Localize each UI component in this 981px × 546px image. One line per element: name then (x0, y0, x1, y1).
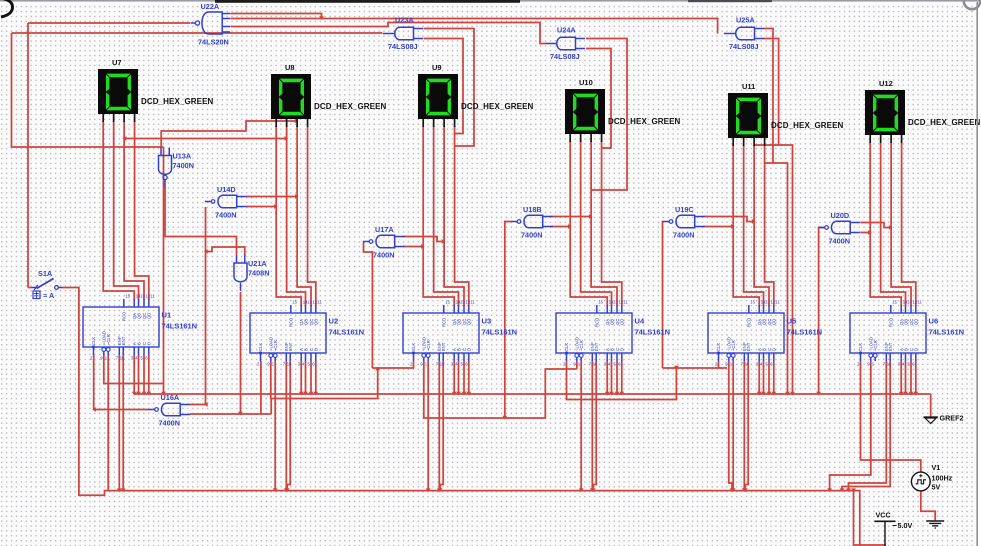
svg-text:VCC: VCC (876, 511, 891, 520)
svg-text:CLK: CLK (411, 343, 416, 351)
svg-text:ENT: ENT (594, 342, 599, 351)
svg-text:QD: QD (314, 319, 319, 325)
wire: S1A right contact down and jog into lower bus (79, 288, 108, 495)
svg-text:DCD_HEX_GREEN: DCD_HEX_GREEN (314, 102, 387, 111)
tick mark before 5.0V (893, 525, 897, 527)
wire: U25A input1 from U11 pin4 (riser x773) (764, 29, 774, 164)
svg-text:RCO: RCO (595, 317, 600, 327)
svg-text:QB: QB (761, 319, 766, 325)
wire: U22A output to switch S1A (28, 23, 190, 288)
svg-text:U25A: U25A (736, 16, 755, 25)
svg-text:QB: QB (136, 313, 141, 319)
wire: S1A left wire from switch (28, 287, 79, 290)
wire: U2 ~CLR ENP ENT drops to lower bus (275, 361, 286, 491)
svg-text:D: D (314, 348, 319, 351)
svg-text:11: 11 (317, 300, 322, 305)
svg-text:74LS08J: 74LS08J (729, 42, 759, 51)
svg-text:10: 10 (745, 362, 750, 367)
svg-text:~CLR: ~CLR (873, 340, 878, 351)
svg-text:U14D: U14D (217, 185, 236, 194)
svg-text:U8: U8 (285, 63, 295, 72)
svg-text:U16A: U16A (161, 393, 180, 402)
wire: lower bus y490.6 across schematic (108, 491, 860, 546)
svg-text:RCO: RCO (289, 317, 294, 327)
svg-text:B: B (609, 348, 614, 351)
7-segment display U8 (DCD_HEX_GREEN) (271, 74, 311, 119)
svg-text:74LS161N: 74LS161N (482, 328, 518, 337)
gate U21A (7408N) pointing down (234, 255, 247, 291)
wires: U9 pins down to U3 outputs (staircase) (423, 126, 469, 306)
counter U4 74LS161N (556, 305, 632, 361)
wire: U24A input2 from U10 pin4 (riser x611) (586, 49, 611, 149)
wire: U1 A B C D input drops to ground bus (134, 355, 149, 394)
ground symbol below V1 (926, 521, 944, 528)
wire: net U23A output to U22A input4 and left-side drop (12, 33, 383, 147)
counter U1 74LS161N (83, 299, 159, 355)
wire: U3 A B C D input drops to ground bus (454, 361, 469, 394)
wire: U4 CLK long link to riser x676.4 (567, 361, 677, 400)
svg-text:74LS08J: 74LS08J (550, 52, 580, 61)
U5 inner pin labels (715, 300, 780, 367)
svg-text:CLK: CLK (91, 337, 96, 345)
wire: U19C output down (662, 222, 665, 369)
wire: spur risers right of U11 down to bus (773, 163, 788, 394)
svg-text:U6: U6 (929, 317, 939, 326)
svg-text:74LS161N: 74LS161N (162, 322, 198, 331)
svg-text:U13A: U13A (173, 152, 192, 161)
svg-text:7400N: 7400N (521, 231, 543, 240)
wire: U17A inputs taps on U9 pins (403, 237, 444, 242)
svg-text:B: B (903, 348, 908, 351)
wire: U21A output down to CLK link line (240, 292, 242, 414)
svg-text:15: 15 (125, 294, 130, 299)
ground GREF2 (924, 417, 939, 424)
svg-text:U19C: U19C (675, 205, 694, 214)
svg-text:10: 10 (440, 362, 445, 367)
svg-text:QB: QB (903, 319, 908, 325)
svg-text:74LS161N: 74LS161N (635, 328, 671, 337)
svg-text:D: D (772, 348, 777, 351)
svg-text:U18B: U18B (523, 205, 542, 214)
NAND gate U19C (7400N) (663, 215, 705, 228)
wire: U16A output to U1 CLK (94, 355, 149, 410)
wire: U25A input2 from U11 pin3 (riser x778.6) (754, 39, 779, 146)
svg-text:D: D (467, 348, 472, 351)
gate U13A (7400N) pointing down (159, 148, 172, 188)
U2 inner pin labels (257, 300, 322, 367)
wires: U12 pins down to U6 outputs (staircase) (870, 142, 916, 306)
svg-text:DCD_HEX_GREEN: DCD_HEX_GREEN (141, 97, 214, 106)
left edge logo fragment (1, 0, 13, 17)
svg-text:U1: U1 (162, 311, 172, 320)
wire: V1 bottom to ground (921, 491, 935, 521)
U4 inner pin labels (563, 300, 628, 367)
svg-text:~CLR: ~CLR (579, 340, 584, 351)
counter U6 74LS161N (850, 305, 926, 361)
wire: U5 ~LOAD down to bus with jog (729, 361, 732, 491)
U7 pins (black stubs) (103, 114, 134, 122)
svg-text:U12: U12 (879, 79, 893, 88)
svg-text:DCD_HEX_GREEN: DCD_HEX_GREEN (461, 102, 534, 111)
wire: U6 CLK to V1 clock source (861, 361, 921, 472)
wire: ground bus y394 across schematic to GREF2 (134, 393, 930, 395)
svg-text:QD: QD (620, 319, 625, 325)
counter U5 74LS161N (708, 305, 784, 361)
wire: vertical x853.5 from bus to bottom edge (854, 491, 887, 545)
svg-text:~CLR: ~CLR (106, 334, 111, 345)
wire: U4 ~CLR ENP ENT drops to lower bus (581, 361, 592, 491)
svg-text:~CLR: ~CLR (273, 340, 278, 351)
svg-text:U22A: U22A (201, 2, 220, 11)
svg-text:7400N: 7400N (373, 251, 395, 260)
counter U2 74LS161N (250, 305, 326, 361)
svg-text:B: B (136, 342, 141, 345)
NAND gate U18B (7400N) (511, 215, 553, 228)
svg-text:100Hz: 100Hz (932, 474, 953, 483)
svg-text:D: D (147, 342, 152, 345)
wires: U11 pins down to U5 outputs (staircase) (733, 145, 774, 306)
counter U3 74LS161N (403, 305, 479, 361)
svg-text:7400N: 7400N (215, 211, 237, 220)
wire: U13A output down to U21A input1 (165, 187, 237, 255)
svg-text:U4: U4 (635, 317, 645, 326)
switch S1A (32, 279, 63, 291)
U9 pins (black stubs) (423, 119, 454, 127)
svg-text:74LS08J: 74LS08J (388, 42, 418, 51)
svg-text:~CLR: ~CLR (731, 340, 736, 351)
wire: U23A input1 from U9 pin4 (riser x474) (424, 29, 475, 147)
wire: U16A input2 / U21A out / U2 CLK link (y414) (190, 361, 271, 414)
svg-text:11: 11 (917, 300, 922, 305)
wire: U24A input1 from U10 pin3 (riser x627) (586, 39, 627, 191)
svg-text:U21A: U21A (248, 259, 267, 268)
svg-text:U10: U10 (579, 78, 593, 87)
svg-text:V1: V1 (932, 463, 941, 472)
svg-text:U20D: U20D (831, 211, 850, 220)
wire: U3 ~CLR ENP ENT drops to lower bus (428, 361, 439, 491)
svg-text:11: 11 (775, 300, 780, 305)
svg-text:U9: U9 (432, 63, 442, 72)
wire: U6 ENP step to bus (849, 361, 887, 491)
svg-text:15: 15 (445, 300, 450, 305)
svg-text:10: 10 (887, 362, 892, 367)
svg-text:RCO: RCO (889, 317, 894, 327)
svg-text:QD: QD (772, 319, 777, 325)
7-segment display U9 (DCD_HEX_GREEN) (418, 74, 458, 119)
svg-text:B: B (456, 348, 461, 351)
wire: net U7.pin3 to U8.pin2 (y138.5) (124, 138, 287, 140)
wire: U19C inputs taps on U11 pins (703, 217, 754, 222)
wire: U1 ~LOAD to bus riser (104, 355, 164, 384)
NAND gate U14D (7400N) (205, 195, 247, 208)
U11 pins (black stubs) (733, 138, 764, 146)
wire: U19C out / U5 CLK link at y368 (663, 361, 728, 368)
wire: U6 A B C D input drops to ground bus (901, 361, 916, 394)
svg-text:D: D (620, 348, 625, 351)
svg-text:5V: 5V (932, 483, 941, 492)
svg-text:74LS161N: 74LS161N (329, 328, 365, 337)
svg-text:CLK: CLK (564, 343, 569, 351)
wire: U6 ~LOAD to bus via y475 (830, 361, 871, 491)
wire: U2 ~LOAD / U17A out / U3 CLK link (271, 361, 414, 399)
AND gate U24A (74LS08J) (545, 37, 585, 50)
svg-text:RCO: RCO (747, 317, 752, 327)
svg-text:D: D (914, 348, 919, 351)
svg-text:U11: U11 (742, 82, 755, 91)
wire: U6 ENT step to bus (842, 361, 890, 491)
svg-text:U17A: U17A (375, 225, 394, 234)
wire: left riser x163.5 down to bus (LOAD net) (163, 147, 165, 394)
wires: U7 pins down to U1 outputs (staircase) (103, 121, 149, 300)
AND gate U23A (74LS08J) (383, 27, 423, 40)
svg-text:B: B (303, 348, 308, 351)
svg-text:15: 15 (292, 300, 297, 305)
svg-text:QB: QB (609, 319, 614, 325)
svg-text:U3: U3 (482, 317, 492, 326)
svg-text:CLK: CLK (258, 343, 263, 351)
clock source V1 (911, 472, 930, 491)
svg-text:74LS161N: 74LS161N (929, 328, 965, 337)
wire: U2 A B C D input drops to ground bus (301, 361, 316, 394)
svg-text:ENT: ENT (288, 342, 293, 351)
svg-text:7400N: 7400N (673, 231, 695, 240)
svg-text:CLK: CLK (858, 343, 863, 351)
AND gate U25A (74LS08J) (724, 27, 764, 40)
svg-text:QD: QD (147, 313, 152, 319)
svg-text:15: 15 (598, 300, 603, 305)
svg-text:11: 11 (470, 300, 475, 305)
wire: GREF2 drop (930, 394, 932, 417)
wires: U10 pins down to U4 outputs (staircase) (570, 141, 622, 306)
wire: U14D input1 tap on U8 pin3 (247, 196, 298, 198)
wire: U20D output down to bus (819, 228, 825, 395)
wire: net U24A output to U22A input3 (231, 23, 546, 44)
7-segment display U7 (DCD_HEX_GREEN) (98, 69, 138, 114)
svg-text:QD: QD (914, 319, 919, 325)
wire: U23A input2 from U9 pin4 (riser x463) (424, 39, 464, 134)
svg-text:11: 11 (623, 300, 628, 305)
NAND gate U17A (7400N) (363, 235, 405, 248)
wire: U18B output down (505, 222, 511, 419)
svg-text:7400N: 7400N (829, 237, 851, 246)
wire: U21A input2 from U14D output vertical (206, 247, 245, 255)
wire: U14D output down to U16A input1 (205, 207, 207, 405)
svg-text:74LS20N: 74LS20N (198, 38, 229, 47)
wire: U17A output down (364, 242, 373, 369)
wires: U8 pins down to U2 outputs (staircase) (276, 126, 316, 306)
svg-text:S1A: S1A (38, 269, 53, 278)
svg-text:QB: QB (456, 319, 461, 325)
svg-text:U5: U5 (787, 317, 797, 326)
svg-text:U2: U2 (329, 317, 339, 326)
svg-text:5.0V: 5.0V (898, 521, 913, 530)
svg-text:QD: QD (467, 319, 472, 325)
wire: U18B inputs taps on U10 pins (551, 216, 592, 218)
power VCC symbol (875, 521, 896, 546)
svg-text:10: 10 (120, 356, 125, 361)
svg-text:DCD_HEX_GREEN: DCD_HEX_GREEN (608, 117, 681, 126)
svg-text:U24A: U24A (557, 26, 576, 35)
U3 inner pin labels (410, 300, 475, 367)
wire: U5 ~CLR ENP ENT drops to lower bus (733, 361, 744, 491)
svg-text:7408N: 7408N (248, 269, 270, 278)
U6 inner pin labels (857, 300, 922, 367)
svg-text:U7: U7 (112, 58, 122, 67)
label key = A for S1A (33, 291, 55, 300)
U1 inner pin labels (90, 294, 155, 361)
svg-text:15: 15 (892, 300, 897, 305)
top window edge (0, 0, 981, 2)
svg-text:ENT: ENT (441, 342, 446, 351)
U12 pins (black stubs) (870, 135, 901, 143)
U8 pins (black stubs) (276, 119, 307, 127)
svg-text:U23A: U23A (395, 16, 414, 25)
svg-text:RCO: RCO (122, 311, 127, 321)
svg-text:DCD_HEX_GREEN: DCD_HEX_GREEN (908, 118, 981, 127)
svg-text:~CLR: ~CLR (426, 340, 431, 351)
wire: U4 A B C D input drops to ground bus (607, 361, 622, 394)
svg-text:ENT: ENT (121, 336, 126, 345)
svg-text:10: 10 (593, 362, 598, 367)
wire: U5 A B C D input drops to ground bus (759, 361, 774, 394)
wire: U13A input1 riser and horizontal y131/y121 (161, 121, 297, 148)
svg-text:ENT: ENT (888, 342, 893, 351)
svg-text:11: 11 (150, 294, 155, 299)
wire: U14D input2 tap on U8 pin1 (247, 206, 277, 208)
7-segment display U11 (DCD_HEX_GREEN) (728, 93, 768, 138)
right edge scrollbar line and corner circle (976, 2, 978, 546)
svg-text:74LS161N: 74LS161N (787, 328, 823, 337)
svg-text:7400N: 7400N (173, 161, 195, 170)
svg-text:= A: = A (43, 291, 55, 300)
7-segment display U12 (DCD_HEX_GREEN) (865, 90, 905, 135)
7-segment display U10 (DCD_HEX_GREEN) (565, 89, 605, 134)
svg-text:DCD_HEX_GREEN: DCD_HEX_GREEN (771, 121, 844, 130)
U10 pins (black stubs) (570, 134, 601, 142)
wire: top net U22A inputs 1+2 tied, long run to U25A output (231, 14, 718, 34)
svg-text:15: 15 (750, 300, 755, 305)
svg-text:7400N: 7400N (159, 419, 181, 428)
svg-text:GREF2: GREF2 (940, 414, 964, 423)
svg-text:10: 10 (287, 362, 292, 367)
svg-text:CLK: CLK (716, 343, 721, 351)
svg-text:QB: QB (303, 319, 308, 325)
NAND gate U20D (7400N) (818, 221, 860, 234)
wire: U20D inputs taps on U12 pins (861, 223, 892, 228)
4-input NAND gate U22A (74LS20N) (191, 12, 231, 34)
svg-text:B: B (761, 348, 766, 351)
NAND gate U16A (7400N) (148, 403, 190, 416)
wire: U3 ~LOAD / U18B out to U4 ~LOAD link (424, 361, 577, 418)
wire: U1 ~CLR ENP ENT drops to lower bus (108, 355, 123, 491)
svg-text:RCO: RCO (442, 317, 447, 327)
svg-text:ENT: ENT (746, 342, 751, 351)
